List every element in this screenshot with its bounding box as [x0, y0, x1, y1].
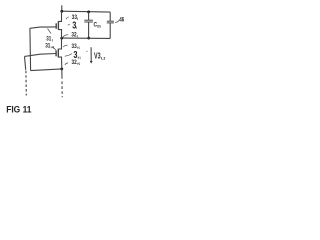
wire gate 31i lead	[30, 27, 56, 28]
svg-text:i: i	[76, 26, 77, 30]
svg-text:i+1: i+1	[78, 56, 81, 60]
transistor 3i drain lead	[58, 11, 61, 21]
node 33i junction dot	[60, 10, 63, 13]
leader 33i+1	[63, 45, 67, 47]
wire gate bus 31i vertical	[29, 28, 32, 70]
wire chain top stub	[61, 5, 63, 11]
capacitor 46 bottom lead	[109, 23, 111, 38]
transistor 3i+1 drain lead	[58, 38, 61, 49]
svg-text:46: 46	[119, 16, 124, 23]
wire gate bus 31i+1 dashed continuation	[25, 71, 27, 96]
capacitor C_DS top lead	[88, 12, 90, 20]
transistor 3i channel	[57, 21, 59, 30]
wire chain below node 32i+1	[61, 69, 63, 79]
node 32i+1 junction dot	[60, 68, 63, 71]
arrow V3	[90, 47, 93, 63]
svg-text:i: i	[77, 17, 78, 21]
transistor 3i+1 source lead	[58, 57, 62, 69]
node capacitor bottom junction dot	[87, 37, 90, 40]
leader 3i	[68, 24, 70, 25]
svg-text:i: i	[77, 34, 78, 38]
capacitor 46 top lead	[109, 12, 111, 21]
leader 31i+1	[53, 47, 56, 50]
wire bottom rail	[62, 37, 110, 39]
leader 32i	[63, 35, 68, 38]
node capacitor top junction dot	[87, 11, 90, 14]
svg-text:FIG 11: FIG 11	[6, 103, 31, 114]
svg-text:i,t: i,t	[101, 56, 106, 60]
transistor 3i+1 channel	[57, 49, 59, 58]
leader 46	[115, 20, 120, 23]
tick left of arrow	[86, 50, 89, 53]
svg-text:i: i	[52, 38, 53, 42]
transistor 3i source lead	[58, 30, 61, 38]
leader 32i+1	[65, 63, 68, 65]
leader 31i	[48, 29, 52, 34]
leader 33i	[66, 17, 69, 20]
transistor 3i+1 gate electrode	[55, 50, 57, 56]
transistor 3i gate electrode	[55, 23, 57, 29]
wire gate 31i+1 lead	[25, 54, 57, 57]
node 32i junction dot	[60, 37, 63, 40]
wire gate bus 31i to node 32i+1	[31, 69, 62, 71]
leader 3i+1	[65, 54, 72, 57]
wire top rail	[62, 10, 110, 13]
capacitor C_DS plates	[84, 19, 93, 21]
svg-text:i+1: i+1	[51, 45, 54, 49]
svg-text:i+1: i+1	[77, 62, 80, 66]
wire chain dashed continuation	[61, 81, 63, 97]
capacitor C_DS bottom lead	[88, 22, 90, 38]
wire gate bus 31i+1 vertical	[25, 56, 26, 69]
capacitor 46 plates	[107, 20, 114, 22]
svg-text:DS: DS	[97, 24, 101, 28]
svg-text:V3: V3	[94, 52, 101, 61]
